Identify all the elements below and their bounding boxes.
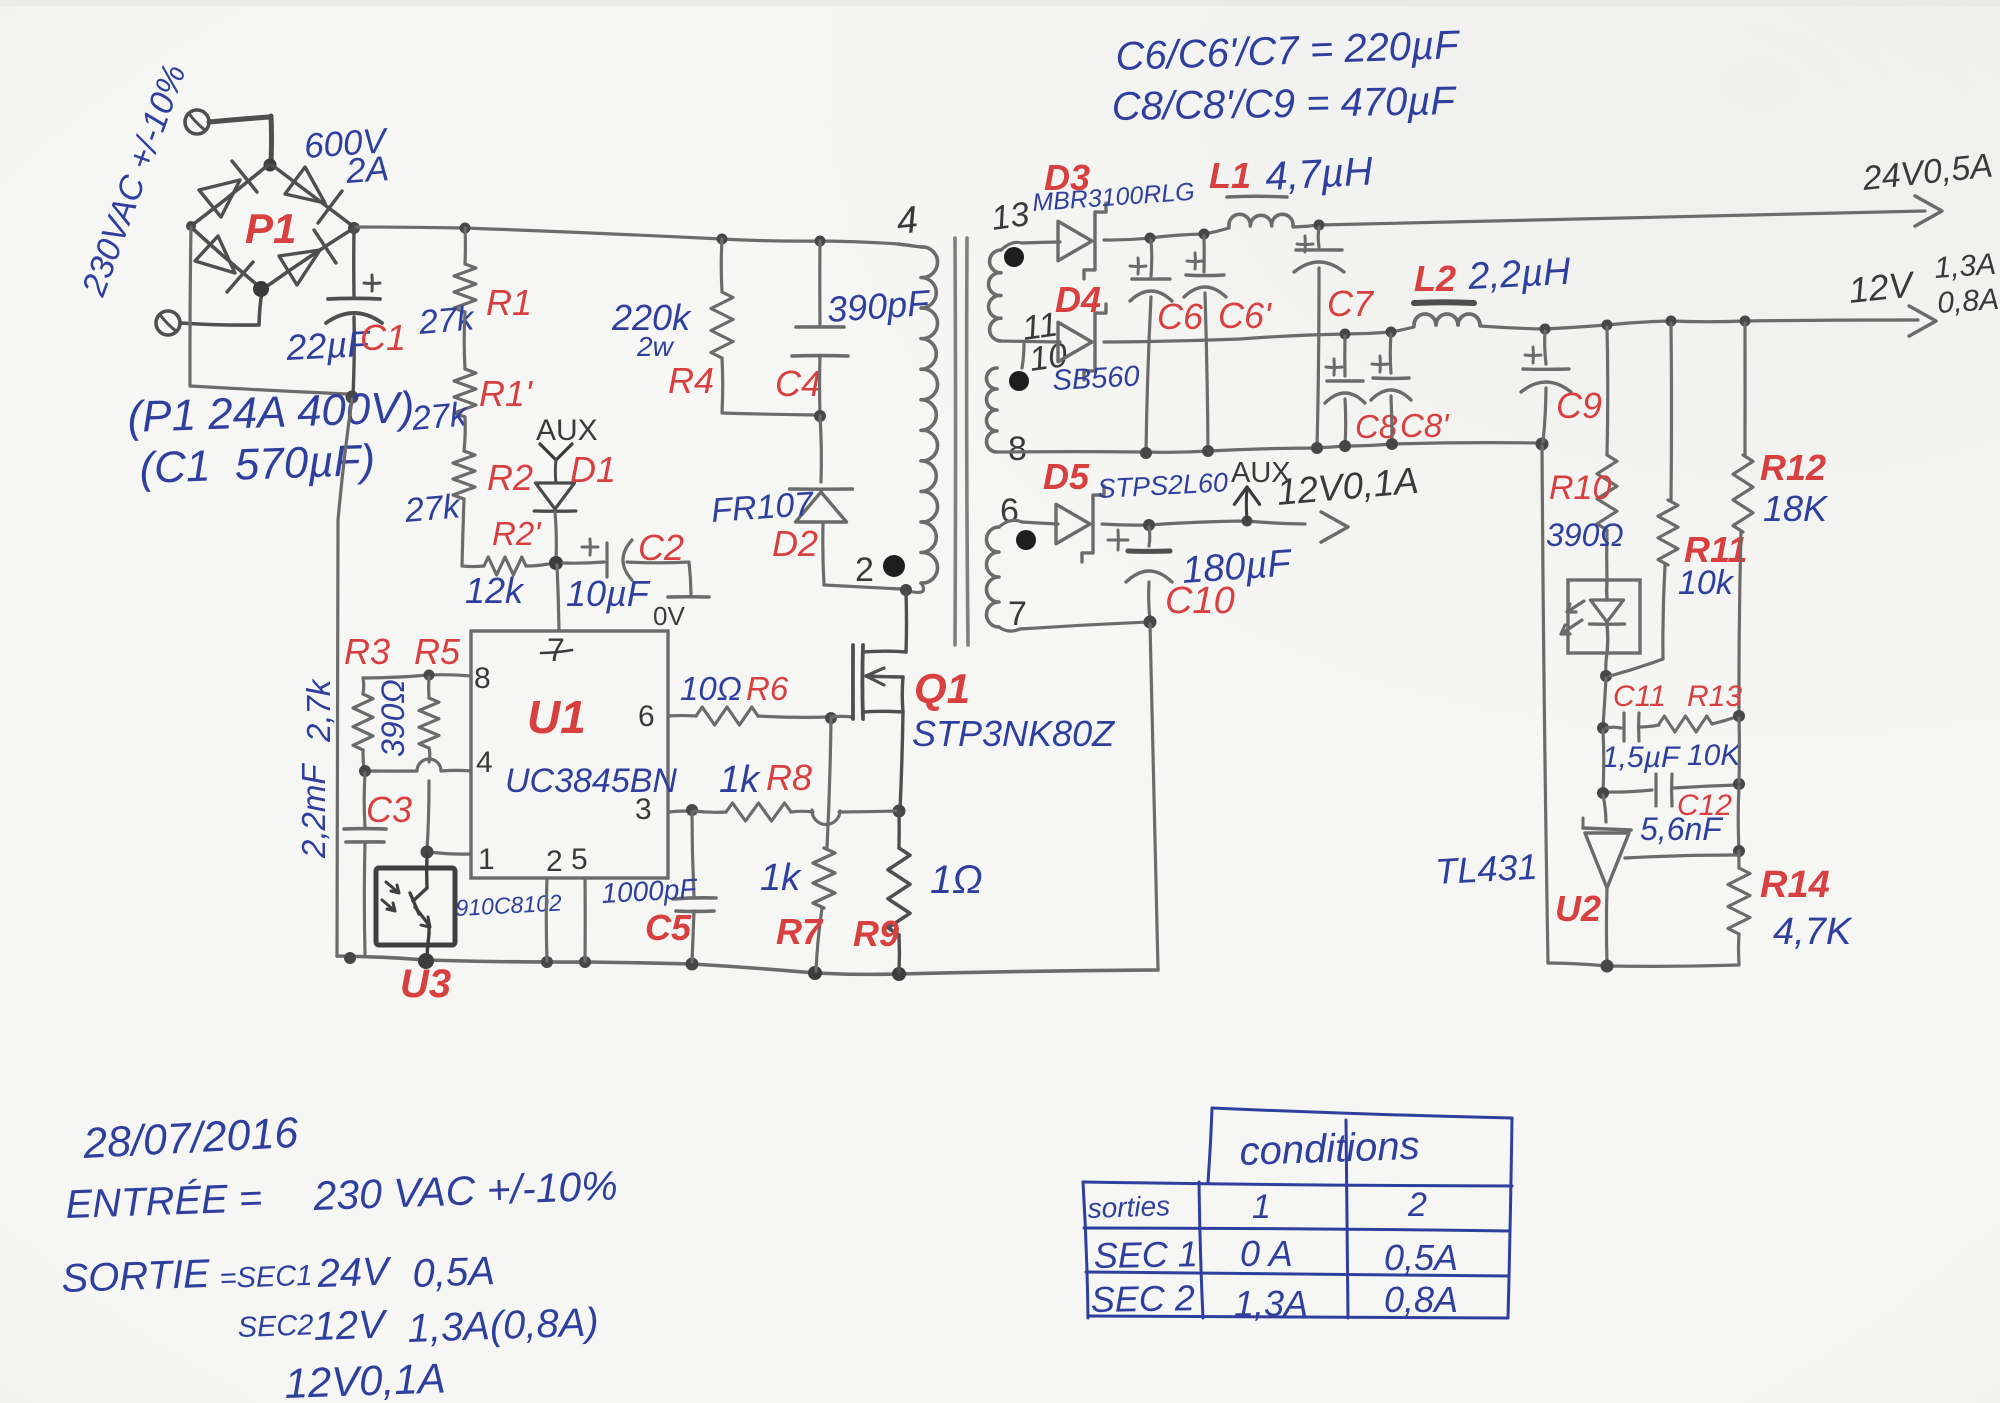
junction C6 bottom [1140, 447, 1152, 459]
resistor R2' [484, 557, 526, 575]
svg-text:10Ω: 10Ω [680, 670, 742, 707]
wire feedback ground [1548, 963, 1739, 966]
optocoupler U3 light arrows [386, 882, 399, 893]
svg-text:0,8A: 0,8A [1384, 1279, 1458, 1320]
wire R8 to hop [791, 810, 813, 814]
svg-text:C11: C11 [1613, 680, 1666, 713]
wire bus to R1 [463, 228, 467, 264]
resistor R8 [726, 803, 791, 821]
junction C12 right [1733, 778, 1745, 790]
wire R1 to R1' [463, 312, 467, 369]
svg-text:SEC 1: SEC 1 [1093, 1233, 1198, 1276]
optocoupler U3 box [376, 868, 455, 945]
wire R6 to gate [758, 716, 829, 717]
svg-text:2: 2 [546, 845, 563, 878]
svg-text:C1: C1 [360, 317, 406, 358]
ground 0V [668, 595, 709, 599]
junction C4/R4/D2 [814, 410, 826, 422]
junction C6' bottom [1202, 445, 1214, 457]
capacitor C6 [1149, 240, 1153, 276]
bridge diode lower-left [195, 236, 235, 273]
transformer secondary winding 1 (13-11) [989, 250, 1001, 341]
svg-text:5,6nF: 5,6nF [1640, 811, 1724, 847]
wire D1 to node [555, 512, 556, 561]
junction pin2 node [900, 584, 912, 596]
wire D5 to aux output [1102, 521, 1305, 525]
svg-text:C10: C10 [1165, 580, 1235, 622]
svg-text:12k: 12k [465, 570, 525, 611]
wire R4 to C4 bottom [722, 358, 816, 415]
wire J2 to bridge bottom [180, 291, 262, 325]
terminal J2 (neutral) [156, 311, 180, 335]
junction U3 ground [418, 953, 434, 969]
svg-text:R2': R2' [492, 515, 542, 552]
svg-text:C6': C6' [1218, 295, 1272, 336]
junction LED/R11 [1600, 670, 1612, 682]
transistor Q1 source stub [863, 710, 903, 714]
resistor R1' [454, 369, 476, 417]
svg-text:1: 1 [478, 843, 495, 876]
resistor R1 [454, 264, 476, 312]
arrow AUX up [1234, 487, 1259, 504]
svg-text:STP3NK80Z: STP3NK80Z [912, 713, 1115, 754]
junction R3/C3/pin4 [359, 765, 371, 777]
capacitor C10 [1147, 527, 1151, 546]
hop R5 over pin4 wire [417, 759, 441, 771]
wire L2 to 12V output [1480, 320, 1918, 329]
wire opto emitter to ground [427, 934, 429, 957]
wire LED to C11 node [1606, 653, 1607, 676]
svg-text:U2: U2 [1555, 888, 1601, 929]
wire D4 to L2 (12V rail) [1104, 327, 1414, 342]
resistor R9 [888, 848, 910, 935]
junction R12 top [1740, 316, 1751, 327]
svg-text:R6: R6 [746, 670, 789, 707]
svg-text:1,3A: 1,3A [1234, 1283, 1308, 1324]
wire secondary ground bus [999, 443, 1540, 453]
svg-text:22µF: 22µF [284, 323, 372, 368]
svg-text:24V: 24V [316, 1249, 393, 1296]
svg-text:7: 7 [547, 632, 565, 668]
junction C12 left [1597, 787, 1609, 799]
junction bridge right [348, 222, 360, 234]
junction R9 ground [892, 967, 906, 981]
svg-text:2w: 2w [636, 331, 675, 362]
optocoupler LED light arrows [1567, 601, 1584, 612]
svg-text:2,2µH: 2,2µH [1466, 251, 1572, 298]
IC U1 box [471, 631, 668, 878]
svg-text:R1: R1 [486, 282, 532, 323]
svg-text:1000pF: 1000pF [601, 873, 699, 909]
wire left rail down [337, 399, 352, 956]
transformer core [953, 238, 957, 645]
svg-text:TL431: TL431 [1434, 846, 1538, 892]
bridge rectifier P1 outline [191, 165, 354, 289]
svg-text:sorties: sorties [1087, 1190, 1171, 1224]
junction C3 ground [344, 952, 356, 964]
svg-text:8: 8 [1008, 430, 1027, 468]
svg-text:1k: 1k [760, 857, 802, 899]
svg-text:1: 1 [1252, 1188, 1271, 1226]
svg-text:R7: R7 [776, 911, 824, 952]
resistor R3 [361, 678, 365, 694]
junction pin5 ground [579, 956, 591, 968]
wire aux winding bottom to C10 [999, 627, 1020, 631]
svg-text:10k: 10k [1678, 564, 1735, 602]
wire D2 to primary pin2 [823, 524, 901, 589]
wire hop to source node [839, 811, 897, 812]
svg-text:27k: 27k [402, 487, 463, 530]
wire R2 to R2' [462, 499, 484, 567]
wire to C11 node [1603, 678, 1606, 727]
svg-text:C8/C8'/C9 = 470µF: C8/C8'/C9 = 470µF [1111, 79, 1457, 129]
svg-text:0V: 0V [653, 601, 685, 631]
svg-text:2,7k: 2,7k [300, 678, 337, 743]
junction source/R8 [893, 805, 906, 818]
junction R7 ground [808, 966, 822, 980]
wire pin1 to opto [429, 852, 471, 854]
wire U2 ref to R14 node [1625, 855, 1737, 858]
svg-text:27k: 27k [416, 299, 477, 342]
svg-text:R8: R8 [766, 757, 812, 798]
svg-text:R10: R10 [1549, 469, 1611, 507]
pin 2 dot [883, 555, 905, 577]
svg-text:ENTRÉE =: ENTRÉE = [65, 1175, 263, 1227]
junction C9 top [1540, 324, 1551, 335]
junction bridge left [186, 221, 196, 231]
svg-text:10µF: 10µF [566, 573, 651, 614]
resistor R5 [427, 677, 431, 698]
diode D5 [1056, 504, 1090, 543]
junction C7 top [1314, 220, 1325, 231]
junction bridge bottom [253, 281, 269, 297]
resistor R11 [1669, 323, 1673, 500]
svg-text:C9: C9 [1556, 385, 1602, 426]
svg-text:R13: R13 [1687, 680, 1742, 713]
svg-text:R3: R3 [344, 631, 390, 672]
junction C10 top [1143, 519, 1155, 531]
svg-text:4: 4 [476, 746, 493, 779]
wire C1 to bottom junction [353, 317, 354, 395]
wire R2' to node [526, 564, 548, 566]
capacitor C11 + resistor R13 [1606, 726, 1621, 730]
svg-text:P1: P1 [245, 205, 296, 252]
transistor Q1 drain stub [863, 650, 906, 654]
transformer secondary winding 2 (10-8) [987, 368, 997, 452]
wire bridge right to C1 [352, 229, 356, 297]
transistor Q1 body arrow [866, 668, 884, 685]
svg-text:10K: 10K [1687, 739, 1742, 772]
diode D4 [1058, 322, 1092, 361]
junction C8' top [1386, 327, 1397, 338]
table grid (conditions) [1212, 1108, 1512, 1118]
svg-text:SEC 2: SEC 2 [1090, 1277, 1195, 1320]
svg-text:R5: R5 [414, 631, 461, 672]
optocoupler U3 phototransistor [425, 854, 429, 888]
svg-text:C7: C7 [1327, 283, 1375, 324]
capacitor C5 [692, 812, 694, 896]
junction C8 bottom [1339, 440, 1351, 452]
svg-text:R4: R4 [668, 360, 714, 401]
svg-text:C8': C8' [1400, 407, 1450, 444]
junction C6' top [1199, 229, 1210, 240]
bridge diode upper-right [285, 167, 325, 203]
wire C2 to ground [627, 562, 691, 594]
wire primary end to pin2 node [908, 583, 924, 592]
capacitor C7 [1317, 227, 1321, 247]
optocoupler LED diode [1605, 580, 1609, 600]
svg-text:2: 2 [855, 551, 874, 589]
capacitor C9 [1545, 331, 1546, 364]
wire pin2 down [545, 878, 549, 961]
resistor R10 [1605, 327, 1609, 455]
terminal J1 (line) [185, 110, 209, 134]
hop R8 wire over R7 [812, 810, 840, 825]
arrow AUX down [540, 444, 572, 460]
wire bus to C4 [818, 241, 821, 326]
inductor L2 [1414, 314, 1480, 325]
wire Q1 source to R9 [900, 712, 903, 810]
bridge diode upper-left [199, 180, 240, 217]
junction pin2 ground [541, 956, 553, 968]
wire winding1 to D3 [1001, 242, 1022, 250]
svg-text:4,7µH: 4,7µH [1264, 149, 1374, 199]
svg-text:R14: R14 [1760, 864, 1830, 906]
svg-text:390pF: 390pF [826, 282, 933, 330]
svg-text:1,3A(0,8A): 1,3A(0,8A) [407, 1300, 600, 1351]
arrow 12V output [1909, 306, 1936, 336]
junction pin1/R5 [421, 846, 434, 859]
svg-text:6: 6 [638, 700, 655, 733]
wire D3 to L1 [1104, 228, 1229, 240]
wire bus to R4 [720, 239, 724, 292]
svg-text:R12: R12 [1760, 447, 1826, 488]
junction C6 top [1145, 233, 1156, 244]
diode D1 [536, 483, 575, 509]
wire J1 to bridge top [209, 116, 272, 163]
svg-text:R1': R1' [479, 373, 533, 414]
svg-text:C3: C3 [366, 789, 412, 830]
wire L1 to 24V output [1293, 225, 1319, 227]
wire gate node to Q1 gate [831, 715, 852, 719]
svg-text:0,5A: 0,5A [1384, 1237, 1458, 1278]
transistor Q1 gate bar [851, 645, 855, 719]
svg-text:4: 4 [895, 199, 920, 243]
wire pin3 to C5 node [668, 811, 690, 812]
diode D3 [1058, 221, 1092, 260]
junction C4 top [815, 236, 826, 247]
svg-text:D1: D1 [570, 449, 616, 490]
capacitor C8' [1389, 334, 1393, 373]
junction C1 bottom [346, 391, 359, 404]
pin 10 dot [1009, 371, 1029, 391]
transformer primary winding [921, 247, 938, 583]
svg-text:D5: D5 [1043, 456, 1090, 497]
pin 6 dot [1016, 530, 1036, 550]
junction C10 bottom [1144, 616, 1157, 629]
wire R5 crossing to pin1 [427, 781, 429, 850]
svg-text:R9: R9 [853, 913, 899, 954]
junction gate node [825, 712, 837, 724]
wire primary ground bus [337, 956, 1158, 974]
svg-text:2A: 2A [344, 149, 390, 191]
svg-text:1k: 1k [719, 759, 761, 801]
wire pin4 to R3 bottom [441, 769, 471, 773]
optocoupler LED box [1568, 580, 1640, 653]
svg-text:SEC2: SEC2 [237, 1309, 314, 1344]
svg-text:0 A: 0 A [1240, 1233, 1293, 1274]
inductor L1 [1229, 214, 1293, 226]
capacitor C8 [1343, 336, 1346, 376]
svg-text:5: 5 [571, 843, 588, 876]
junction C11 node [1597, 722, 1609, 734]
capacitor C1 [328, 296, 380, 300]
resistor R14 [1728, 868, 1750, 934]
svg-text:2,2mF: 2,2mF [295, 763, 332, 859]
arrow aux output [1321, 512, 1348, 542]
junction R1 top [460, 223, 471, 234]
svg-text:R2: R2 [487, 457, 533, 498]
svg-text:1Ω: 1Ω [930, 858, 983, 902]
wire bridge left down to bottom rail [190, 227, 347, 394]
svg-text:SB560: SB560 [1052, 360, 1141, 397]
svg-text:1,3A: 1,3A [1933, 248, 1997, 285]
wire winding tap to D4 [999, 341, 1060, 342]
pin 13 dot [1004, 247, 1024, 267]
junction C7 bottom [1311, 442, 1323, 454]
junction U2 anode ground [1601, 960, 1614, 973]
svg-text:C6: C6 [1157, 296, 1204, 337]
svg-text:1,5µF: 1,5µF [1602, 741, 1681, 774]
wire C10 down to primary ground [1150, 624, 1158, 969]
wire pin8 to R3/R5 [363, 675, 471, 678]
junction R5 top [424, 670, 435, 681]
junction R4 top [717, 234, 728, 245]
svg-text:AUX: AUX [536, 414, 598, 447]
junction C8' bottom [1386, 438, 1398, 450]
svg-text:12V: 12V [1847, 263, 1918, 311]
svg-text:C5: C5 [645, 907, 692, 948]
junction C9 bottom [1536, 438, 1549, 451]
wire R1' to R2 [464, 417, 465, 451]
svg-text:U1: U1 [527, 691, 586, 743]
wire node to C2 [563, 562, 604, 563]
svg-text:18K: 18K [1763, 488, 1829, 529]
svg-text:L2: L2 [1414, 258, 1456, 299]
wire main HV bus [356, 227, 898, 244]
svg-text:Q1: Q1 [914, 665, 970, 713]
svg-text:4,7K: 4,7K [1773, 911, 1853, 953]
capacitor C6' [1202, 236, 1205, 272]
svg-text:0,5A: 0,5A [412, 1249, 496, 1296]
svg-text:2: 2 [1407, 1186, 1427, 1224]
wire C4 to junction [818, 356, 822, 414]
resistor R7 [827, 719, 831, 848]
junction R14 top / ref [1733, 845, 1745, 857]
svg-text:390Ω: 390Ω [375, 679, 411, 757]
junction R11 top [1666, 316, 1677, 327]
resistor R2 [453, 451, 475, 499]
resistor R6 [696, 707, 758, 725]
junction AUX stub [1242, 516, 1253, 527]
diode D2 (FR107) [796, 492, 847, 522]
svg-text:C4: C4 [775, 363, 821, 404]
junction C5 ground [686, 958, 699, 971]
transformer aux winding (6-7) [987, 527, 1000, 627]
shunt regulator U2 (TL431) [1603, 795, 1606, 822]
svg-text:conditions: conditions [1239, 1124, 1421, 1174]
svg-text:8: 8 [474, 662, 491, 695]
svg-text:12V: 12V [313, 1302, 389, 1349]
junction C8 top [1340, 329, 1351, 340]
svg-text:27k: 27k [409, 395, 470, 438]
junction D1/R2'/C2 node [549, 556, 563, 570]
capacitor C3 [363, 773, 367, 827]
svg-text:=SEC1: =SEC1 [219, 1260, 313, 1295]
resistor R12 [1743, 323, 1746, 455]
svg-text:D4: D4 [1055, 279, 1101, 320]
junction R10 top [1602, 320, 1613, 331]
svg-text:13: 13 [989, 195, 1032, 238]
wire node to U1 pin7 [557, 565, 559, 630]
wire C5 node to R8 [694, 811, 726, 812]
wire 12V rail return (C9 left leg) [1542, 446, 1548, 963]
wire pin5 down [583, 878, 586, 961]
svg-text:3: 3 [635, 793, 652, 826]
capacitor C2 [605, 543, 608, 577]
wire R12 to R14 node [1737, 718, 1741, 782]
transistor Q1 channel bar [861, 645, 865, 719]
junction bridge top [264, 159, 277, 172]
bridge diode lower-right [279, 250, 320, 285]
arrow 24V output [1915, 196, 1942, 226]
junction R13/R12 [1733, 710, 1745, 722]
capacitor C12 [1601, 730, 1605, 792]
wire junction to D2 [820, 416, 821, 482]
svg-text:(P1 24A 400V): (P1 24A 400V) [127, 383, 416, 442]
svg-text:12V0,1A: 12V0,1A [284, 1354, 447, 1403]
resistor R4 [711, 292, 733, 358]
capacitor C4 [796, 325, 844, 329]
svg-text:390Ω: 390Ω [1546, 517, 1624, 553]
svg-text:D2: D2 [772, 523, 818, 564]
svg-text:0,8A: 0,8A [1936, 283, 2000, 320]
wire pin6 to R6 [668, 714, 696, 718]
junction C5 top [686, 804, 698, 816]
wire winding aux to D5 [999, 520, 1022, 527]
svg-text:SORTIE: SORTIE [61, 1252, 212, 1301]
svg-text:L1: L1 [1209, 155, 1251, 196]
wire AUX to D1 [554, 460, 558, 483]
